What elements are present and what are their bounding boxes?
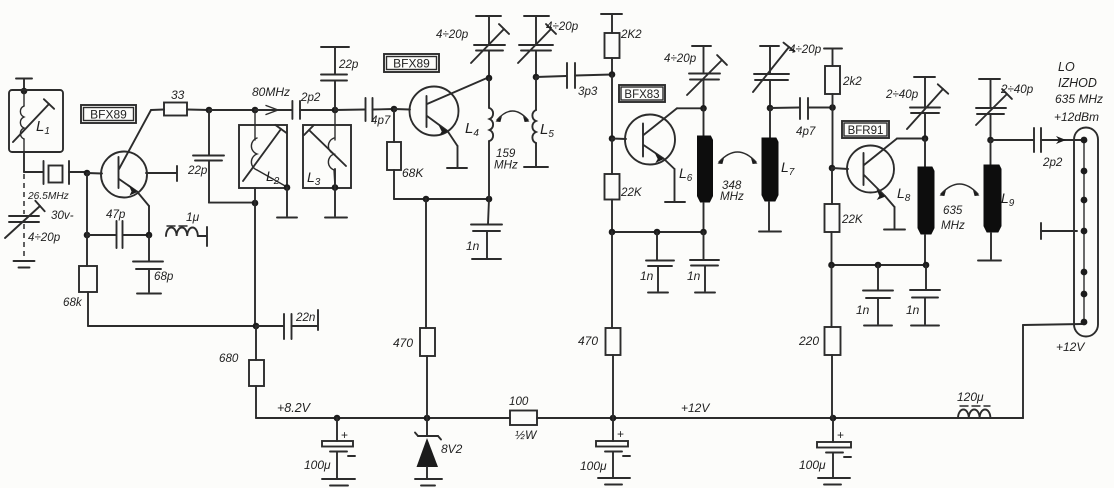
svg-text:80MHz: 80MHz bbox=[252, 85, 290, 99]
svg-text:120μ: 120μ bbox=[957, 390, 984, 404]
svg-text:2÷40p: 2÷40p bbox=[885, 88, 919, 101]
node 470 (stage3) bbox=[609, 229, 616, 236]
capacitor 47p bbox=[87, 208, 149, 248]
dashed wire to trimmer bbox=[23, 174, 25, 214]
inductor L6 (318MHz tank) bbox=[679, 108, 713, 232]
svg-text:L9: L9 bbox=[1001, 190, 1015, 209]
trimmer 2÷40p (L8) bbox=[885, 77, 948, 139]
node 100u (12V a) bbox=[610, 415, 617, 422]
capacitor 22n bbox=[256, 311, 317, 339]
ground bar under L5 bbox=[524, 166, 548, 168]
svg-text:2K2: 2K2 bbox=[620, 28, 642, 41]
svg-text:1μ: 1μ bbox=[186, 210, 200, 224]
connector pin node y171 bbox=[1081, 168, 1088, 175]
wire L5 to 3p3 bbox=[536, 76, 566, 77]
terminal bar after 22n bbox=[317, 310, 319, 330]
svg-text:22K: 22K bbox=[841, 213, 864, 226]
terminal bar above 2k2 (stage4) bbox=[824, 48, 842, 50]
collector stub with terminal bar bbox=[146, 172, 176, 174]
shield box around L1 bbox=[9, 90, 63, 152]
resistor 22K (stage3) bbox=[605, 139, 643, 233]
node below L2 bbox=[252, 200, 259, 207]
resistor 470 (stage2) bbox=[393, 199, 435, 418]
resistor 68k bbox=[63, 235, 97, 326]
capacitor 22p (emitter tap) bbox=[187, 110, 255, 203]
svg-text:L7: L7 bbox=[781, 159, 795, 178]
svg-text:22p: 22p bbox=[187, 164, 208, 177]
svg-text:22K: 22K bbox=[620, 186, 643, 199]
node L2 top bbox=[252, 107, 259, 114]
wire collector up to R1 bbox=[151, 109, 164, 112]
wire 2p2 to L3 node bbox=[300, 109, 335, 111]
svg-text:4p7: 4p7 bbox=[371, 114, 391, 127]
svg-text:2k2: 2k2 bbox=[842, 75, 862, 88]
terminal bar near connector bbox=[1040, 223, 1042, 239]
ground under 1n a bbox=[648, 292, 668, 294]
ground under 1n bbox=[472, 258, 501, 260]
svg-text:BFX83: BFX83 bbox=[624, 89, 659, 101]
ground under L3 bbox=[325, 217, 347, 219]
node T2 collector bbox=[486, 75, 493, 82]
+12V rail wire bbox=[537, 417, 1023, 419]
ground bar T2 emitter bbox=[447, 167, 467, 169]
svg-text:1n: 1n bbox=[640, 269, 654, 283]
coupling arrow L8-L9 bbox=[941, 184, 978, 194]
node L2 bottom right bbox=[284, 184, 291, 191]
node T3 collector bbox=[700, 105, 707, 112]
coupling arrow L4-L5 bbox=[497, 111, 528, 120]
svg-text:22p: 22p bbox=[338, 58, 359, 71]
svg-text:L1: L1 bbox=[36, 118, 50, 137]
capacitor 1n (stage3 a) bbox=[640, 232, 674, 291]
ground under 1n c bbox=[864, 325, 892, 327]
svg-text:4÷20p: 4÷20p bbox=[28, 231, 61, 244]
node 3p3/2K2 bbox=[609, 71, 616, 78]
wire 4p7 to T2 base bbox=[373, 108, 395, 111]
inductor 120u choke bbox=[957, 390, 990, 418]
ground under 68p bbox=[137, 293, 161, 295]
electrolytic 100u (8.2V) bbox=[304, 418, 355, 478]
svg-text:470: 470 bbox=[393, 336, 413, 350]
svg-text:+8.2V: +8.2V bbox=[277, 401, 312, 415]
resistor 470 (stage3) bbox=[578, 232, 621, 418]
trimmer 4÷20p (L7) bbox=[753, 43, 822, 108]
capacitor 4p7 (stage4 coupling) bbox=[796, 98, 833, 138]
terminal bar above L6 bbox=[692, 45, 711, 47]
node 4p7/2k2 bbox=[829, 104, 836, 111]
svg-text:68k: 68k bbox=[63, 296, 83, 309]
wire L3 to ground bbox=[334, 169, 336, 188]
resistor 22K (stage4) bbox=[825, 168, 864, 265]
svg-text:68K: 68K bbox=[402, 166, 424, 180]
terminal bar above L8 bbox=[914, 76, 935, 78]
svg-text:LO: LO bbox=[1058, 60, 1075, 74]
svg-text:+: + bbox=[617, 427, 624, 441]
wire L1 to crystal node bbox=[23, 152, 25, 172]
trimmer 4÷20p (L4) bbox=[436, 16, 509, 78]
node 470 tap bbox=[423, 196, 430, 203]
wire down to T3 base bbox=[611, 75, 613, 139]
wire L7 to 4p7 bbox=[770, 107, 799, 110]
node bias junction bbox=[253, 323, 260, 330]
ground under 100u bbox=[322, 478, 355, 480]
wire T2 bias line bbox=[394, 198, 489, 200]
node L5 top bbox=[533, 74, 540, 81]
node 1n a bbox=[654, 229, 661, 236]
ground under 100u b bbox=[818, 477, 850, 479]
connector pin node y272 bbox=[1081, 269, 1088, 276]
wire bias line to junction bbox=[88, 325, 256, 327]
node 1n c bbox=[875, 262, 882, 269]
svg-text:+12V: +12V bbox=[681, 401, 710, 415]
inductor L3 (variable) bbox=[304, 110, 346, 188]
svg-text:26.5MHz: 26.5MHz bbox=[27, 191, 69, 202]
crystal X1 26.5MHz bbox=[27, 161, 87, 202]
wire T3 collector bbox=[677, 107, 704, 109]
svg-text:470: 470 bbox=[578, 334, 598, 348]
node L3 bottom bbox=[332, 184, 339, 191]
svg-text:L6: L6 bbox=[679, 165, 693, 184]
svg-text:BFX89: BFX89 bbox=[393, 57, 430, 71]
+8.2V rail wire bbox=[256, 417, 510, 419]
svg-text:2p2: 2p2 bbox=[300, 91, 321, 104]
node base of T1 bbox=[84, 170, 91, 177]
tank box L2 bbox=[239, 125, 287, 188]
svg-text:2p2: 2p2 bbox=[1042, 156, 1063, 169]
resistor R1 33 bbox=[164, 88, 187, 116]
svg-text:½W: ½W bbox=[515, 428, 538, 442]
node 100u (12V b) bbox=[830, 415, 837, 422]
wire 120u to connector bbox=[990, 417, 1023, 419]
coupling arrow L6-L7 bbox=[719, 152, 756, 162]
node 100u bbox=[334, 415, 341, 422]
node L6 bottom bbox=[700, 229, 707, 236]
resistor 220 bbox=[798, 265, 841, 418]
wire down to T4 base bbox=[832, 108, 834, 169]
capacitor 2p2 output bbox=[1034, 128, 1082, 169]
ground bar under L9 bbox=[978, 260, 1001, 262]
ground under 1n b bbox=[695, 292, 715, 294]
svg-text:100μ: 100μ bbox=[304, 458, 331, 472]
node at shield box top bbox=[21, 88, 28, 95]
node L7 top bbox=[767, 105, 774, 112]
ground under trimmer bbox=[14, 260, 35, 262]
svg-text:+12V: +12V bbox=[1056, 340, 1085, 354]
zener diode 8V2 bbox=[415, 418, 463, 478]
svg-text:3p3: 3p3 bbox=[578, 85, 598, 98]
wire R1 to node bbox=[187, 109, 209, 112]
svg-text:IZHOD: IZHOD bbox=[1058, 76, 1097, 90]
svg-text:L3: L3 bbox=[307, 169, 321, 188]
ground under 100u a bbox=[598, 477, 630, 479]
inductor L2 (variable) bbox=[243, 110, 287, 187]
svg-text:L8: L8 bbox=[897, 185, 911, 204]
node 220 bbox=[828, 262, 835, 269]
terminal bar above 2K2 bbox=[601, 13, 622, 15]
inductor L4 bbox=[465, 78, 493, 199]
svg-text:L5: L5 bbox=[540, 121, 554, 140]
svg-text:68p: 68p bbox=[154, 270, 174, 283]
svg-text:47p: 47p bbox=[106, 208, 126, 221]
capacitor 4p7 coupling bbox=[366, 98, 391, 127]
terminal bar above 22p bbox=[321, 46, 349, 48]
connector pin node y231 bbox=[1081, 228, 1088, 235]
electrolytic 100u (12V a) bbox=[580, 418, 630, 477]
svg-text:+: + bbox=[837, 428, 844, 442]
svg-text:1n: 1n bbox=[466, 239, 480, 253]
svg-text:100μ: 100μ bbox=[799, 458, 826, 472]
node zener bbox=[424, 415, 431, 422]
stage3 bias line bbox=[612, 231, 704, 233]
connector pin node y322 bbox=[1081, 319, 1088, 326]
terminal bar above L4 bbox=[476, 15, 501, 17]
svg-text:BFX89: BFX89 bbox=[90, 108, 127, 122]
inductor L7 (318MHz tank) bbox=[762, 108, 795, 230]
ground bar T4 emitter bbox=[884, 229, 905, 231]
svg-text:30v-: 30v- bbox=[51, 209, 74, 222]
svg-text:22n: 22n bbox=[295, 311, 315, 324]
inductor L8 (635MHz tank) bbox=[897, 139, 934, 266]
wire T4 collector bbox=[897, 138, 925, 140]
resistor 2K2 (stage3) bbox=[605, 14, 643, 75]
inductor L9 (635MHz tank) bbox=[984, 140, 1015, 259]
wire L2 to ground bbox=[286, 188, 288, 217]
ground bar under L7 bbox=[759, 231, 781, 233]
terminal bar above L9 bbox=[979, 78, 1000, 80]
resistor 100 1/2W bbox=[509, 395, 538, 442]
connector pin node y200 bbox=[1081, 197, 1088, 204]
svg-text:+12dBm: +12dBm bbox=[1054, 110, 1099, 124]
trimmer 4÷20p (L6) bbox=[664, 46, 727, 108]
capacitor 22p (L3 top) bbox=[321, 47, 359, 110]
node L9 top bbox=[987, 137, 994, 144]
capacitor 3p3 bbox=[567, 63, 612, 98]
wire base node down bbox=[86, 173, 88, 235]
capacitor 1n (stage3 b) bbox=[687, 232, 719, 291]
wire node to L2 node bbox=[209, 109, 255, 111]
svg-text:L2: L2 bbox=[266, 168, 280, 187]
svg-text:MHz: MHz bbox=[720, 190, 744, 203]
resistor 68K (T2 base) bbox=[387, 109, 424, 199]
terminal bar top-left bbox=[16, 78, 32, 80]
svg-text:4÷20p: 4÷20p bbox=[664, 52, 697, 65]
terminal bar above L7 bbox=[760, 45, 779, 47]
wire L2 box to bias node bbox=[254, 188, 256, 203]
electrolytic 100u (12V b) bbox=[799, 418, 851, 477]
terminal bar above L5 bbox=[524, 15, 549, 17]
capacitor 1n (stage4 a) bbox=[856, 265, 893, 324]
svg-text:MHz: MHz bbox=[941, 219, 965, 232]
connector pin node y140 bbox=[1081, 137, 1088, 144]
node T4 base bbox=[829, 165, 836, 172]
label BFR91 (T4) bbox=[842, 121, 889, 138]
inductor L1 (variable) bbox=[13, 91, 54, 152]
svg-text:8V2: 8V2 bbox=[441, 442, 463, 456]
wire L9 to 2p2 bbox=[991, 139, 1034, 141]
output connector LO IZHOD bbox=[1074, 128, 1098, 337]
tank box L3 bbox=[303, 125, 351, 188]
capacitor 68p bbox=[133, 235, 174, 292]
wire top bar to L1 shield box bbox=[23, 79, 25, 92]
resistor 680 bbox=[219, 326, 264, 418]
label LO IZHOD 635MHz +12dBm bbox=[1054, 60, 1103, 124]
svg-text:4÷20p: 4÷20p bbox=[546, 20, 579, 33]
connector pin node y294 bbox=[1081, 291, 1088, 298]
trimmer 2÷40p (L9) bbox=[976, 79, 1034, 140]
inductor 1u choke bbox=[166, 210, 207, 246]
trimmer 4÷20p (L5) bbox=[518, 16, 579, 77]
svg-text:33: 33 bbox=[171, 88, 185, 102]
capacitor 1n (stage4 b) bbox=[906, 265, 940, 324]
node 22p tap bbox=[206, 107, 213, 114]
svg-text:680: 680 bbox=[219, 352, 239, 365]
trimmer capacitor 4÷20p bbox=[5, 201, 74, 244]
node T4 collector bbox=[922, 135, 929, 142]
svg-text:220: 220 bbox=[798, 334, 819, 348]
svg-text:4÷20p: 4÷20p bbox=[789, 43, 822, 56]
node T3 base bbox=[609, 135, 616, 142]
capacitor 2p2 coupling bbox=[292, 91, 320, 119]
svg-text:1n: 1n bbox=[856, 303, 870, 317]
node L4 bottom bbox=[486, 196, 493, 203]
transistor T1 BFX89 bbox=[87, 110, 151, 233]
svg-text:1n: 1n bbox=[687, 269, 701, 283]
inductor L5 bbox=[532, 77, 554, 166]
svg-text:BFR91: BFR91 bbox=[848, 125, 884, 137]
ground under 1n d bbox=[911, 325, 939, 327]
ground bar T3 emitter bbox=[665, 201, 685, 203]
node T2 base bbox=[391, 106, 398, 113]
label BFX89 (T1) bbox=[81, 105, 136, 123]
node L3 top bbox=[332, 107, 339, 114]
dashed wire trimmer to ground bbox=[23, 224, 25, 258]
svg-text:2÷40p: 2÷40p bbox=[1000, 83, 1034, 96]
node emitter T1 bbox=[146, 232, 153, 239]
svg-text:+: + bbox=[341, 428, 348, 442]
wire with 80MHz arrow bbox=[252, 85, 292, 115]
svg-text:635 MHz: 635 MHz bbox=[1055, 92, 1103, 106]
svg-text:4p7: 4p7 bbox=[796, 125, 816, 138]
wire L3 node to 4p7 bbox=[335, 109, 365, 112]
stage4 bias line bbox=[832, 264, 927, 266]
svg-text:635: 635 bbox=[943, 204, 963, 217]
ground under zener bbox=[415, 478, 442, 480]
label BFX83 (T3) bbox=[619, 85, 665, 102]
svg-text:100μ: 100μ bbox=[580, 459, 607, 473]
svg-text:L4: L4 bbox=[465, 120, 479, 139]
svg-text:1n: 1n bbox=[906, 303, 920, 317]
transistor T4 BFR91 bbox=[832, 139, 897, 229]
svg-text:MHz: MHz bbox=[494, 159, 518, 172]
node T1 bias (47p) bbox=[84, 232, 91, 239]
label BFX89 (T2) bbox=[384, 54, 439, 72]
wire bar to connector bbox=[1041, 230, 1077, 232]
transistor T3 BFX83 bbox=[612, 108, 677, 201]
transistor T2 BFX89 bbox=[394, 78, 487, 167]
svg-text:100: 100 bbox=[509, 395, 529, 408]
ground under L2 bbox=[277, 217, 297, 219]
capacitor 1n (stage2) bbox=[466, 199, 502, 258]
svg-text:4÷20p: 4÷20p bbox=[436, 28, 469, 41]
node L8 bottom bbox=[923, 262, 930, 269]
resistor 2k2 (stage4) bbox=[825, 49, 862, 108]
